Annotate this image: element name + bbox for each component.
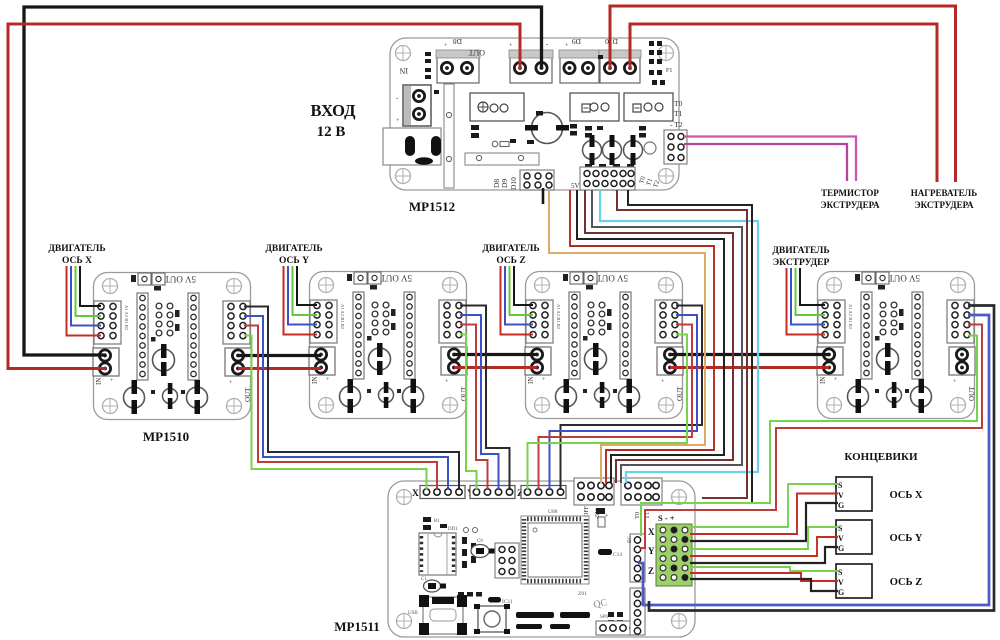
svg-text:ТЕРМИСТОР: ТЕРМИСТОР (821, 188, 879, 198)
svg-text:OFF: OFF (584, 505, 590, 517)
terminal block OUT (468, 40, 553, 83)
wire bus red MP1512 to MP1511 (570, 190, 714, 483)
wire extruder signal red long (640, 325, 982, 549)
svg-text:ДВИГАТЕЛЬ: ДВИГАТЕЛЬ (772, 246, 829, 256)
svg-text:G: G (838, 501, 844, 510)
svg-text:V: V (838, 491, 844, 500)
wire motor X green (76, 266, 102, 316)
header block B (T0 T1) (621, 478, 662, 519)
svg-text:НАГРЕВАТЕЛЬ: НАГРЕВАТЕЛЬ (911, 188, 977, 198)
svg-text:Z01: Z01 (578, 591, 587, 597)
controller board МР1511 (388, 478, 695, 637)
relay K3 (624, 93, 673, 121)
reset button (474, 604, 510, 634)
wire heater red inner (630, 24, 937, 182)
svg-text:D8: D8 (453, 37, 462, 46)
wire motor X red (67, 266, 102, 336)
C11 cap (488, 597, 501, 603)
svg-text:ЭКСТРУДЕРА: ЭКСТРУДЕРА (915, 200, 974, 210)
wire motor Z black (514, 266, 533, 305)
wire power chain black 1-2 (238, 354, 321, 357)
wire bus dark brown MP1512 to MP1511 (585, 190, 733, 483)
wire motor X blue (71, 266, 101, 326)
svg-text:D10: D10 (509, 177, 518, 190)
horizontal silk strip (465, 153, 539, 165)
wire bus black MP1512 to MP1511 (577, 190, 724, 483)
wire motor Z blue (505, 266, 533, 325)
svg-text:Z: Z (648, 566, 654, 576)
header 2x3 mid (495, 543, 519, 578)
svg-text:X: X (412, 489, 419, 499)
power board U-MP1512 (383, 37, 687, 190)
wire signal X black (244, 307, 459, 491)
endstop connector Z (836, 564, 872, 598)
bottom silk bars (516, 612, 554, 618)
svg-text:S - +: S - + (658, 513, 675, 523)
cap C14 right of QFP (598, 549, 622, 558)
svg-text:ЭКСТРУДЕРА: ЭКСТРУДЕРА (821, 200, 880, 210)
bottom header 1x4 (596, 621, 638, 635)
DIP IC (419, 533, 456, 575)
small SMD pads right column (649, 41, 665, 85)
svg-text:МР1512: МР1512 (409, 199, 455, 214)
wire bus gray MP1512 to MP1511 (592, 190, 742, 483)
svg-text:МР1511: МР1511 (334, 619, 380, 634)
wire signal X green (244, 336, 427, 491)
svg-text:F1: F1 (666, 68, 672, 74)
bottom header D8 D9 D10 (492, 170, 554, 190)
svg-text:+: + (604, 513, 611, 517)
wire motor extruder black (800, 268, 825, 305)
svg-text:T1: T1 (674, 109, 683, 118)
wire power chain red 2-3 (454, 366, 537, 369)
endstop connector Y (836, 520, 872, 554)
wire motor Y blue (288, 266, 317, 325)
terminal block D8 (436, 37, 480, 83)
wire signal Y blue (460, 315, 499, 490)
passives column between DIP and QFP (462, 537, 476, 568)
wire endstop Y red V (690, 537, 838, 556)
wire motor Z red (501, 266, 534, 335)
wire thermistor pink A (684, 137, 856, 182)
right vertical header upper (627, 534, 645, 582)
svg-text:ЕС: ЕС (627, 536, 633, 543)
wire 12V input black (top loop) (24, 7, 542, 355)
wire motor Y green (293, 266, 318, 315)
DC barrel jack (383, 128, 455, 185)
wire 12V input red (top loop) (8, 24, 520, 369)
svg-text:SP6: SP6 (600, 615, 609, 620)
wire bus orange MP1512 to MP1511 (549, 190, 705, 483)
header block A (-5V+) (574, 478, 614, 527)
wire endstop Y green S (690, 527, 838, 549)
QFP microcontroller (521, 509, 589, 584)
wire power chain red 1-2 (238, 367, 321, 370)
wire stub black D10 (542, 188, 545, 204)
wire motor X black (80, 266, 101, 306)
terminal block D9 (559, 37, 600, 83)
svg-text:C1: C1 (421, 577, 427, 582)
svg-text:ОСЬ Y: ОСЬ Y (889, 533, 922, 544)
svg-text:V: V (838, 534, 844, 543)
bottom header 5V T0 T1 T2 (571, 167, 661, 190)
terminal block D10 (599, 37, 641, 83)
wire signal Y red (460, 325, 488, 491)
wire endstop Z red V (690, 573, 838, 581)
wire thermistor pink B (684, 144, 847, 181)
svg-text:T0: T0 (674, 99, 683, 108)
wire motor extruder green (796, 268, 826, 315)
header Y pins (467, 486, 515, 500)
svg-text:S: S (838, 481, 843, 490)
svg-text:USB: USB (408, 611, 418, 616)
svg-text:OUT: OUT (468, 48, 485, 57)
wire signal X blue (244, 316, 448, 490)
svg-text:ДВИГАТЕЛЬ: ДВИГАТЕЛЬ (482, 244, 539, 254)
electrolytic capacitor C1 (525, 113, 569, 144)
svg-text:IN: IN (399, 66, 408, 75)
wire signal Y green (460, 335, 477, 491)
endstop connector X (836, 477, 872, 511)
small SMD pads mid (471, 55, 646, 144)
svg-text:S: S (838, 524, 843, 533)
svg-text:DD1: DD1 (448, 527, 458, 532)
small SMD pads left (425, 52, 439, 94)
wire signal Z black (561, 306, 703, 491)
wire endstop Y black G (690, 547, 838, 563)
wire motor Z green (510, 266, 534, 315)
header X pins (412, 486, 465, 500)
svg-text:R1: R1 (434, 519, 440, 524)
wire signal Y black (460, 306, 510, 491)
svg-text:5V: 5V (571, 182, 580, 190)
driver board МР1510 axis X (93, 273, 252, 420)
wire signal Z green (528, 335, 688, 491)
relay K2 (570, 93, 619, 121)
driver board МР1510 axis Z (525, 272, 684, 419)
svg-text:ОСЬ Z: ОСЬ Z (890, 577, 922, 588)
wire power chain black 3-4 (670, 353, 829, 356)
svg-text:C14: C14 (613, 552, 622, 558)
svg-text:ДВИГАТЕЛЬ: ДВИГАТЕЛЬ (48, 244, 105, 254)
wire motor extruder blue (791, 268, 825, 325)
svg-text:КОНЦЕВИКИ: КОНЦЕВИКИ (844, 451, 918, 463)
wire bus brown T0 (617, 190, 747, 498)
svg-text:МР1510: МР1510 (143, 429, 189, 444)
svg-text:G: G (838, 544, 844, 553)
wire signal X red (244, 326, 437, 491)
small parts top-left of DIP (423, 517, 447, 530)
wire endstop Z green S (690, 567, 838, 571)
svg-text:D9: D9 (572, 37, 581, 46)
wire power chain black 2-3 (454, 353, 537, 356)
wire extruder signal blue loop (638, 315, 989, 605)
svg-text:ОСЬ X: ОСЬ X (889, 490, 922, 501)
wire motor Y red (284, 266, 318, 335)
small electrolytic left bottom (421, 577, 446, 592)
header Z pins (517, 486, 566, 500)
IN power connector (396, 66, 431, 126)
driver board МР1510 axis Y (309, 272, 468, 419)
svg-text:V: V (838, 578, 844, 587)
pads under caps (570, 124, 634, 169)
wire power chain red 3-4 (670, 366, 829, 369)
svg-text:G: G (838, 588, 844, 597)
svg-text:D9: D9 (500, 179, 509, 188)
pad row under DIP (458, 592, 482, 597)
USB connector (408, 595, 467, 635)
wire bus black T0 (628, 190, 752, 503)
wire endstop Z black G (690, 579, 838, 591)
wire extruder signal green long (641, 336, 977, 537)
pads right bottom (608, 612, 623, 625)
wire signal Z red (539, 325, 693, 491)
thermistor header 2x3 (664, 130, 687, 164)
capacitor row C4 C5 C6 (583, 135, 657, 165)
svg-text:12 В: 12 В (317, 124, 346, 140)
svg-text:Y: Y (648, 546, 655, 556)
wire motor extruder red (787, 268, 826, 335)
wire heater red outer (610, 6, 956, 182)
electrolytic + diode row (471, 539, 495, 558)
wire motor Y black (297, 266, 317, 305)
wire extruder signal black loop (649, 306, 994, 611)
svg-text:T0: T0 (634, 512, 641, 519)
wire endstop X green S (690, 484, 838, 527)
relay K1 (470, 93, 524, 121)
svg-text:ЭКСТРУДЕР: ЭКСТРУДЕР (773, 258, 830, 268)
svg-text:X: X (648, 527, 655, 537)
svg-text:S: S (838, 568, 843, 577)
vertical silk strip (444, 84, 454, 188)
wire signal Z blue (550, 315, 698, 490)
right vertical header lower (630, 588, 645, 635)
wire endstop X black G (690, 503, 838, 541)
svg-text:ВХОД: ВХОД (310, 101, 356, 120)
wire bus cyan MP1512 to MP1511 (600, 190, 758, 483)
svg-text:C6: C6 (477, 539, 483, 544)
svg-text:ОСЬ Z: ОСЬ Z (496, 256, 525, 266)
driver board МР1510 extruder (817, 272, 976, 419)
svg-text:- T2: - T2 (670, 120, 683, 129)
wire endstop X red V (690, 494, 838, 535)
svg-text:ОСЬ X: ОСЬ X (62, 256, 92, 266)
svg-text:ОСЬ Y: ОСЬ Y (279, 256, 309, 266)
svg-text:U88: U88 (548, 509, 558, 515)
resistor silk marks mid (492, 141, 498, 147)
endstop pin block S - + (648, 513, 692, 586)
svg-text:ДВИГАТЕЛЬ: ДВИГАТЕЛЬ (265, 244, 322, 254)
